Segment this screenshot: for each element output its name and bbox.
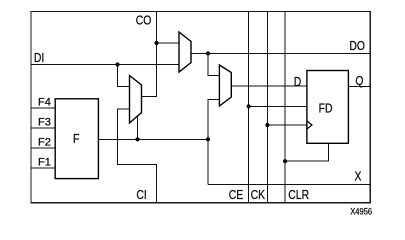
svg-text:CI: CI <box>136 188 146 202</box>
mux C flip-flop D input select <box>219 65 231 106</box>
mux A carry output select <box>179 32 191 72</box>
FD clock triangle <box>307 121 312 129</box>
wire mux C output to FD D input <box>231 85 307 87</box>
wire DO from mux A output to right border <box>191 52 370 54</box>
wire CLR into FD bottom <box>285 143 329 161</box>
input stub F2 <box>31 147 55 149</box>
svg-text:CK: CK <box>251 188 266 202</box>
wire F output up to mux C input 2 and down to X line <box>208 99 219 184</box>
junction dot CO net to mux A <box>154 41 158 45</box>
svg-text:D: D <box>294 75 302 89</box>
svg-text:CLR: CLR <box>288 188 309 202</box>
wire DI branch down to mux B input 1 <box>118 65 130 87</box>
wire branch from DO down to mux C input 1 <box>208 53 219 75</box>
svg-text:DI: DI <box>34 51 44 65</box>
svg-text:X: X <box>355 169 362 183</box>
wire CK vertical <box>266 12 268 203</box>
wire CK into FD clock <box>267 124 307 126</box>
wire CE into FD <box>249 105 307 107</box>
svg-text:CE: CE <box>229 188 244 202</box>
svg-text:X4956: X4956 <box>350 206 372 217</box>
junction dot CE <box>247 104 251 108</box>
input stub F4 <box>31 107 55 109</box>
outer CLB border frame <box>31 12 370 203</box>
input stub F3 <box>31 127 55 129</box>
wire X output line <box>208 183 370 185</box>
junction dot F output node <box>206 137 210 141</box>
junction dot DO branch <box>206 51 210 55</box>
wire F output <box>98 138 208 140</box>
wire mux B output to CO net <box>142 95 158 97</box>
svg-text:F1: F1 <box>38 157 51 169</box>
wire CLR vertical <box>284 12 286 203</box>
mux B carry mux <box>130 76 142 124</box>
wire Q output <box>348 86 370 88</box>
F function generator box <box>55 99 98 179</box>
svg-text:F4: F4 <box>38 97 51 109</box>
svg-text:F2: F2 <box>38 137 51 149</box>
wire DI horizontal <box>31 64 179 66</box>
junction dot CK <box>265 123 269 127</box>
wire CI path from bottom border to mux B input 2 <box>118 109 157 203</box>
svg-text:CO: CO <box>136 13 152 27</box>
svg-text:DO: DO <box>349 39 365 53</box>
junction dot mux B select <box>135 137 139 141</box>
wire CE vertical <box>248 12 250 203</box>
wire mux A input 1 from CO net <box>157 42 180 44</box>
svg-text:Q: Q <box>355 74 363 88</box>
svg-text:F3: F3 <box>38 117 51 129</box>
junction dot CLR <box>283 159 287 163</box>
junction dot DI branch <box>115 62 119 66</box>
wire mux B select from F output <box>137 116 139 139</box>
flip-flop FD box <box>307 71 349 144</box>
svg-text:F: F <box>73 132 79 146</box>
input stub F1 <box>31 167 55 169</box>
svg-text:FD: FD <box>319 102 333 116</box>
wire CO vertical carry-out net <box>156 12 158 97</box>
